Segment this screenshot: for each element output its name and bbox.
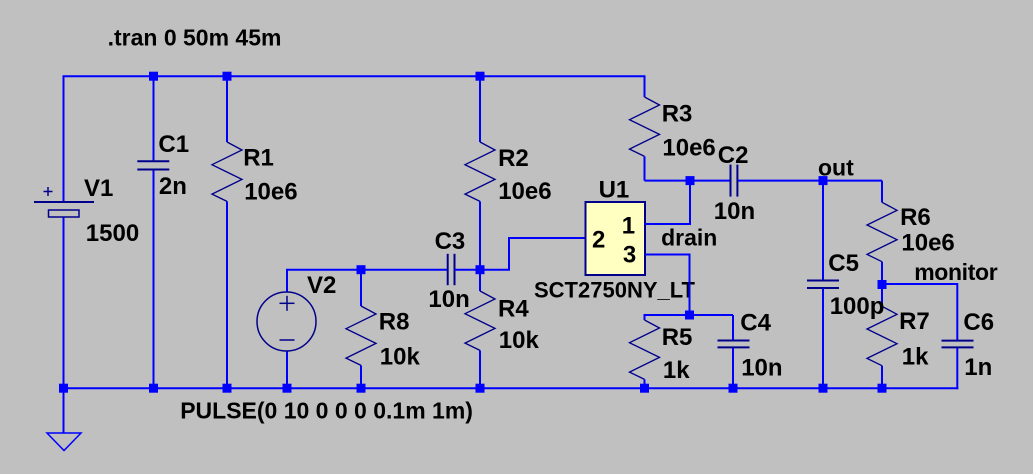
svg-text:R4: R4 [498,296,529,323]
svg-text:C3: C3 [435,228,466,255]
svg-text:SCT2750NY_LT: SCT2750NY_LT [534,277,696,302]
node bottom C5 [819,384,828,393]
wire C1 top [153,76,155,161]
resistor R7 [867,306,897,365]
wire bottom rail [63,387,959,389]
resistor R1 [212,142,242,201]
wire top rail [63,75,646,77]
node bottom R1 [223,384,232,393]
svg-text:10k: 10k [499,327,540,354]
node R8 top [357,265,366,274]
node bottom C4 [729,384,738,393]
node bottom V2 [283,384,292,393]
wire V1 bottom to rail [63,217,65,389]
wire R8 top [360,270,362,306]
resistor R3 [630,97,660,156]
wire V2 to C3 horizontal [286,269,448,271]
capacitor C2 [731,165,738,197]
capacitor C6 [942,341,974,348]
wire R4 top lead [479,270,481,291]
wire R7 bottom [881,366,883,389]
ground [47,433,81,451]
wire C1 bottom [153,170,155,388]
svg-text:10n: 10n [714,198,755,225]
node bottom V1 [59,384,68,393]
resistor R2 [465,142,495,201]
svg-text:R1: R1 [243,145,274,172]
svg-text:C4: C4 [740,310,771,337]
wire R8 bottom [360,365,362,388]
wire R6 bottom [881,262,883,284]
node bottom R4 [476,384,485,393]
wire R3 bottom [644,156,646,180]
wire R4 bottom [479,350,481,388]
node out [819,176,828,185]
wire R5 bottom [644,379,646,388]
wire C6 bottom [956,348,958,389]
svg-text:C5: C5 [828,250,859,277]
svg-text:R6: R6 [900,204,931,231]
U1 box [586,202,646,275]
node bottom C1 [149,384,158,393]
wire C5 bottom [822,289,824,389]
svg-text:10e6: 10e6 [901,229,954,256]
resistor R4 [465,291,495,350]
node bottom R8 [357,384,366,393]
svg-text:10e6: 10e6 [662,134,715,161]
svg-text:10n: 10n [741,355,782,382]
svg-text:V1: V1 [84,175,113,202]
resistor R6 [867,202,897,261]
svg-text:1: 1 [622,213,635,240]
wire C4 top [732,315,734,341]
wire pin3 to R5 C4 [645,255,690,316]
battery V1 [34,187,94,217]
svg-text:U1: U1 [599,177,630,204]
wire R2 top [479,76,481,143]
wire pin1 to node [645,181,690,224]
wire C5 top [822,181,824,280]
wire R3 top lead [644,76,646,98]
svg-text:drain: drain [661,225,717,251]
wire V2 bottom [286,351,288,389]
capacitor C1 [137,161,169,169]
wire ground stub [63,388,65,433]
svg-text:1k: 1k [902,344,929,371]
wire C3 to node [455,269,481,271]
svg-text:C2: C2 [718,142,749,169]
wire R6 top lead [881,181,883,203]
node C3 R2 R4 [476,265,485,274]
svg-text:10e6: 10e6 [498,178,551,205]
capacitor C4 [718,341,750,348]
svg-text:3: 3 [623,242,636,269]
svg-text:100p: 100p [830,293,885,320]
wire C4 bottom [732,348,734,389]
wire R2 bottom [479,201,481,269]
svg-text:1n: 1n [964,354,992,381]
node monitor [878,280,887,289]
wire left drop to V1 [63,76,65,203]
svg-text:C6: C6 [963,309,994,336]
wire R1 bottom [226,201,228,388]
wire V2 top stub [286,270,288,292]
svg-text:R3: R3 [662,101,693,128]
svg-text:10k: 10k [380,343,421,370]
node R5 C4 [685,311,694,320]
svg-text:10n: 10n [428,286,469,313]
svg-text:1k: 1k [663,357,690,384]
svg-text:monitor: monitor [914,259,998,285]
svg-text:R8: R8 [379,309,410,336]
svg-text:PULSE(0 10 0 0 0 0.1m 1m): PULSE(0 10 0 0 0 0.1m 1m) [180,397,473,423]
svg-text:R7: R7 [899,308,930,335]
node drain [686,176,695,185]
svg-text:1500: 1500 [86,220,139,247]
node top C1 [149,72,158,81]
wire R7 top lead [881,284,883,306]
wire node to pin2 [480,238,586,270]
svg-text:R5: R5 [662,324,693,351]
svg-text:2: 2 [592,227,605,254]
resistor R8 [346,306,376,365]
resistor R5 [630,320,660,379]
wire R1 top [226,76,228,143]
svg-text:V2: V2 [307,272,336,299]
node top R2 [476,72,485,81]
node bottom R7 [878,384,887,393]
node top R1 [223,72,232,81]
svg-text:C1: C1 [158,131,189,158]
wire R3 to C2 [645,180,731,182]
voltage source V2 [257,292,316,351]
wire monitor horizontal [882,284,957,341]
node bottom R5 [640,384,649,393]
wire R5 C4 horizontal [645,315,734,320]
capacitor C5 [807,281,839,289]
capacitor C3 [448,254,455,285]
svg-text:.tran 0 50m 45m: .tran 0 50m 45m [108,25,282,51]
svg-text:10e6: 10e6 [244,179,297,206]
wire C2 to R6 [738,180,882,182]
svg-text:2n: 2n [159,173,187,200]
svg-text:R2: R2 [498,145,529,172]
